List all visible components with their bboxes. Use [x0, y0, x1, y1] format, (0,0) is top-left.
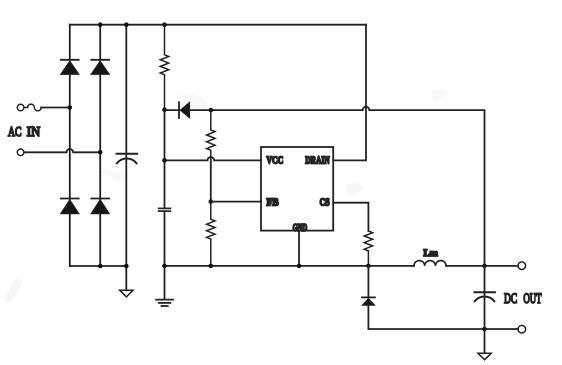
wire GND pin — [298, 231, 300, 266]
diode D5 — [165, 102, 190, 118]
svg-text:Lm: Lm — [424, 249, 438, 259]
node top rail R1 — [162, 22, 167, 27]
capacitor C2 vcc — [159, 208, 171, 211]
wire bulk cap column — [125, 25, 127, 291]
wire bottom output rail — [368, 328, 518, 330]
node output top — [482, 264, 487, 269]
svg-text:CS: CS — [320, 198, 330, 209]
svg-text:AC: AC — [8, 125, 22, 140]
terminal AC live — [17, 104, 24, 111]
capacitor C3 output — [474, 292, 495, 301]
node rail GND — [297, 264, 302, 269]
wire C3 column — [484, 266, 486, 329]
diode D6 freewheel — [362, 266, 375, 329]
smudge artifacts — [5, 89, 450, 302]
node VCC cap — [162, 158, 167, 163]
inductor Lm — [414, 261, 446, 266]
resistor R3 — [207, 202, 215, 266]
diode D2 — [91, 60, 109, 75]
wire FB line — [211, 201, 261, 203]
node bottom rail C1 — [124, 264, 129, 269]
resistor R2 — [207, 110, 215, 160]
IC U1 — [261, 147, 333, 231]
svg-text:FB: FB — [267, 198, 279, 209]
wire R2 to FB node — [210, 160, 212, 201]
terminal AC neutral — [17, 149, 24, 156]
wire bridge left leg — [69, 25, 71, 266]
wire bottom-left rail — [70, 265, 127, 267]
wire top rail — [70, 24, 366, 26]
wire secondary ground rail — [165, 265, 415, 267]
wire D5 anode to output feed (hop at drain drop) — [190, 107, 485, 266]
resistor R1 — [160, 25, 168, 110]
node AC neutral/bridge — [98, 150, 103, 155]
node FB — [209, 199, 214, 204]
node rail C2 — [162, 264, 167, 269]
capacitor C1 bulk electrolytic — [117, 154, 138, 163]
node R1/D5 — [162, 107, 167, 112]
node top rail C1 — [124, 22, 129, 27]
wire VCC line (hop over divider) — [165, 157, 262, 160]
svg-text:DRAIN: DRAIN — [305, 155, 330, 166]
ground output — [478, 329, 491, 360]
wire CS to R4 — [333, 203, 368, 231]
wire inductor to DC+ — [446, 265, 518, 267]
wire fuse to bridge — [41, 107, 70, 109]
fuse F1 — [24, 104, 41, 111]
node bottom rail D4 — [98, 264, 103, 269]
ground chassis under C1 — [120, 290, 133, 297]
diode D4 — [91, 199, 109, 214]
earth ground under C2 — [156, 300, 173, 306]
wire bridge right leg — [99, 25, 101, 266]
node rail R4/D6 — [366, 264, 371, 269]
wire DRAIN to top rail — [333, 25, 366, 161]
node D5 divider — [209, 108, 214, 113]
diode D3 — [61, 199, 79, 214]
terminal DC plus — [518, 262, 526, 270]
resistor R4 — [364, 231, 372, 266]
diode D1 — [61, 60, 79, 75]
wire AC neutral to bridge (hop over left leg) — [24, 149, 100, 152]
svg-text:VCC: VCC — [267, 155, 284, 166]
svg-text:DC: DC — [504, 291, 517, 307]
terminal DC minus — [518, 325, 526, 333]
node rail R3 — [209, 264, 214, 269]
wire VCC node column — [164, 110, 166, 300]
node output bottom — [482, 327, 487, 332]
svg-text:OUT: OUT — [523, 291, 541, 307]
node fuse/bridge — [68, 105, 73, 110]
node top rail D2 — [98, 22, 103, 27]
svg-text:IN: IN — [27, 125, 40, 140]
svg-text:GND: GND — [293, 223, 308, 234]
